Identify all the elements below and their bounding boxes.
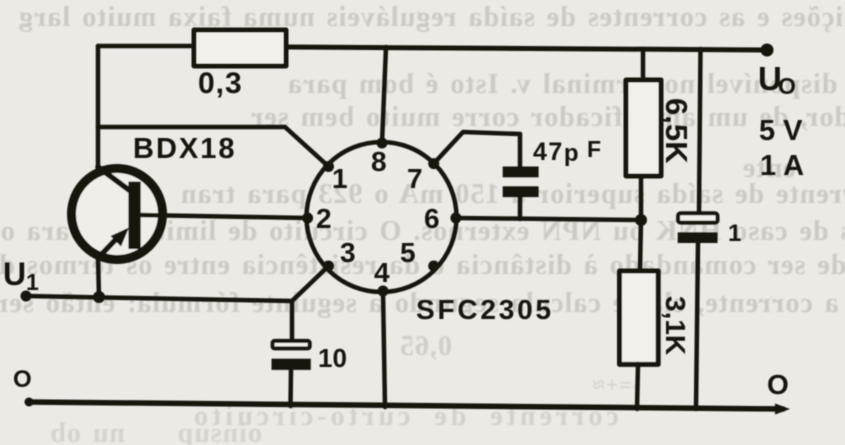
svg-text:-=+≈: -=+≈	[592, 372, 640, 397]
wire: pin 7 to 47pF	[434, 132, 520, 167]
capacitor C2 10 (electrolytic)	[273, 341, 310, 349]
wire: pin 8 lead up to rail	[382, 47, 386, 143]
svg-text:um diodo estabilizador, de um: um diodo estabilizador, de um amplificad…	[250, 102, 845, 133]
wire: bottom ground rail	[28, 402, 783, 409]
wire: left vertical (input to transistor collector)	[96, 46, 101, 170]
pin 2	[302, 213, 313, 224]
resistor R3 3,1K	[640, 220, 641, 271]
transistor emitter arrowhead	[111, 228, 130, 247]
pin 1	[323, 161, 334, 172]
svg-text:5: 5	[400, 237, 416, 268]
svg-text:BDX18: BDX18	[133, 133, 237, 165]
resistor R2 6,5K	[641, 49, 646, 80]
node: U1 terminal dot	[21, 291, 32, 302]
pin 6	[450, 213, 461, 224]
wire: 47pF lower lead	[518, 197, 523, 219]
svg-text:U: U	[3, 256, 26, 292]
svg-text:1: 1	[728, 220, 741, 247]
node: ground left terminal dot	[25, 398, 34, 407]
capacitor C1 47pF	[503, 167, 539, 178]
transistor collector segment	[98, 167, 129, 190]
wire: pin 6 to divider junction	[456, 218, 641, 220]
svg-text:das condições e as correntes d: das condições e as correntes de saída re…	[18, 2, 845, 33]
pin 3	[323, 261, 334, 272]
wire: pin 4 to ground rail	[383, 291, 385, 407]
pin 8	[377, 138, 388, 149]
node: emitter junction dot	[93, 291, 105, 303]
svg-text:4: 4	[374, 257, 390, 288]
svg-text:2: 2	[316, 203, 332, 234]
svg-text:O: O	[778, 73, 796, 99]
transistor emitter segment with arrow	[98, 235, 120, 258]
capacitor C3 1 (electrolytic, output)	[699, 49, 701, 213]
wire: C2 lower lead	[288, 370, 293, 406]
svg-text:nu ob: nu ob	[49, 418, 125, 445]
svg-text:1: 1	[332, 163, 348, 194]
wire: branch to IC pin 1	[98, 127, 328, 166]
wire: top rail left segment	[98, 44, 194, 49]
node: output rail end dot	[761, 44, 774, 57]
svg-text:5 V: 5 V	[759, 115, 803, 147]
svg-text:3,1K: 3,1K	[660, 296, 691, 355]
svg-text:1: 1	[26, 269, 39, 295]
svg-text:0,65: 0,65	[399, 331, 452, 362]
svg-text:3: 3	[340, 237, 356, 268]
svg-text:SFC2305: SFC2305	[416, 294, 554, 325]
svg-text:8: 8	[371, 146, 387, 177]
wire: top rail right segment	[286, 47, 768, 50]
node: ground right arrow end	[775, 404, 790, 415]
transistor base lead to IC pin 2	[140, 215, 307, 218]
svg-text:O: O	[767, 369, 789, 400]
svg-text:10: 10	[318, 343, 347, 373]
transistor Q1 BDX18	[72, 169, 163, 260]
wire: pin 3 to C2	[292, 266, 329, 341]
svg-text:0,3: 0,3	[198, 67, 243, 100]
svg-text:1 A: 1 A	[760, 150, 804, 182]
IC U1 SFC2305 (TO-5 can outline)	[307, 142, 457, 292]
pin 5	[428, 261, 439, 272]
svg-text:O: O	[13, 366, 32, 393]
wire: emitter down to U1 rail	[98, 258, 99, 297]
wire: U1 input rail	[26, 296, 292, 301]
pin 7	[428, 158, 439, 169]
node: divider junction dot	[635, 214, 647, 226]
svg-text:7: 7	[407, 163, 423, 194]
pin 4	[378, 286, 389, 297]
resistor 0,3 (series in top rail)	[194, 30, 286, 66]
svg-text:6,5K: 6,5K	[659, 98, 694, 164]
svg-text:oinsup: oinsup	[177, 418, 262, 445]
svg-text:6: 6	[424, 203, 440, 234]
transistor base bar	[128, 182, 140, 249]
